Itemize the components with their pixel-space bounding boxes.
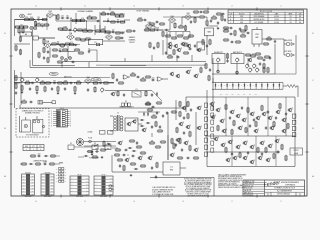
transistor Q37 [250,160,256,164]
resistor R92 [202,39,204,45]
svg-text:220K: 220K [83,28,87,30]
op-amp U1A [123,75,130,80]
lamp DS1 [30,26,33,29]
svg-text:D: D [224,84,225,86]
border tick top 1 [60,7,62,10]
resistor R47 [103,82,109,84]
svg-text:WIRE SIDE: WIRE SIDE [44,196,51,198]
svg-text:4K7: 4K7 [153,114,156,116]
svg-text:ENGR JW 4-94: ENGR JW 4-94 [244,185,254,187]
channel label [78,10,94,13]
transistor Q86 [248,58,252,62]
wire [191,16,199,18]
wire row3 full [14,81,114,83]
capacitor C41 [156,27,160,31]
bias box [125,118,138,131]
field vertical 6 [255,136,257,166]
resistor R99 [233,120,235,126]
tremolo text [119,106,134,108]
wire [110,116,113,131]
capacitor C7 [68,29,72,31]
resistor R155 [49,163,55,165]
border tick left 3 [9,151,12,153]
wire [20,163,60,165]
diode bridge [143,112,149,116]
capacitor C36 [123,93,125,97]
capacitor C56 [206,44,208,48]
pot P4 [36,77,40,82]
capacitor C99 [239,27,241,31]
wire bus G [20,107,160,109]
resistor R48 [21,85,23,91]
svg-text:.022: .022 [112,29,115,31]
resistor R87b [240,30,246,32]
resistor R15 [119,21,125,23]
svg-text:10U: 10U [59,48,62,50]
trem cluster [61,57,72,62]
transistor Q33 [250,145,256,149]
capacitor C89 [155,175,157,179]
riser x56 [55,15,57,21]
svg-text:1N4: 1N4 [243,94,246,96]
transistor Q66 [148,156,154,160]
resistor R112 [217,125,219,131]
transistor Q19 [236,114,242,118]
pin stub [109,185,114,191]
rail right [294,97,296,167]
resistor R32 [38,52,40,58]
svg-text:TREBLE: TREBLE [51,74,56,76]
parts under tube row [149,21,165,25]
capacitor C27 [29,87,31,91]
transistor Q35 [233,156,239,160]
parts above tank [223,27,233,29]
wire [162,40,164,55]
field vertical 5 [231,136,233,166]
capacitor C9 [121,32,125,34]
lamp DS2 [34,26,37,29]
resistor R138 [129,140,135,142]
resistor R80 [211,15,217,19]
capacitor C68 [247,151,249,155]
wire [205,17,208,20]
svg-text:1K5: 1K5 [57,41,60,43]
connector P5 pins [122,101,131,106]
wire psu [138,111,160,113]
parts mid band 2 [64,42,77,46]
control label VOLUME [91,78,100,81]
pot box 2 [231,51,244,64]
wire [146,171,163,173]
resistor R172 [177,35,183,37]
svg-text:47K: 47K [81,18,84,20]
parts center 45-55 [149,42,159,50]
transistor Q82 [181,42,185,46]
svg-text:JUMPER OPTION W1: JUMPER OPTION W1 [33,160,47,162]
emitter resistor column [204,103,207,156]
tube V4A [145,21,153,29]
ac pair wire 1 [84,141,116,143]
resistor R23 [77,29,83,31]
ground [57,92,60,95]
capacitor C6 [116,19,120,23]
zone number bottom 6 [35,201,37,203]
small box [96,43,100,46]
parts driver [179,111,189,120]
transistor Q32 [243,141,249,145]
legend table [23,145,44,152]
resistor R107 [257,147,259,153]
wire [103,40,125,42]
bias diode ladder [212,83,298,98]
wire [40,19,44,21]
wire bus B2 [96,64,206,66]
zone letter right C [312,80,314,82]
resistor R163 [115,149,121,151]
transistor Q39 [266,158,272,162]
regulator block IC1 [163,162,180,175]
vibrato channel text [128,36,136,44]
vibrato box small [33,36,38,40]
tube socket diagram XV1 [22,172,35,198]
svg-text:9249: 9249 [240,16,243,18]
transistor Q70 [118,141,124,145]
capacitor C40b [132,30,136,32]
parts power entry [89,149,109,160]
diagonal wire [152,91,162,101]
parts right of boxes [257,56,270,61]
recovery box [197,42,205,50]
connector diagram P7 [94,174,113,198]
resistor R43 [57,82,63,84]
relay K3 [92,143,98,149]
field vertical 7 [275,136,277,166]
vertical rail x213 [212,58,214,110]
wire [160,29,164,31]
capacitor C98 [230,41,234,43]
border tick top 2 [109,7,111,10]
resistor R31 [43,47,45,53]
diode CR5 [140,125,144,127]
resistor R53 [94,86,96,92]
transistor Q2 [194,74,200,78]
proprietary text block [218,173,246,189]
capacitor C31 [15,91,17,95]
svg-text:470: 470 [61,15,64,17]
svg-text:LTR: LTR [229,13,231,15]
svg-text:220K: 220K [25,17,29,19]
field vertical 4 [285,97,287,136]
wire rail x296 [295,35,297,60]
capacitor C10 [47,50,49,54]
svg-text:PWR: PWR [255,34,258,36]
wire [47,15,56,20]
resistor R137 [157,130,163,132]
resistor R7 [79,18,85,22]
svg-text:9311: 9311 [240,19,243,21]
svg-text:.047: .047 [88,15,91,17]
wire bus D [14,77,110,79]
svg-text:10U: 10U [66,15,69,17]
input jack oval J1 [19,14,32,18]
capacitor C66 [285,112,287,116]
connector P2/J2 ladder [51,108,71,127]
transistor Q40 [222,129,228,133]
resistor R57 [118,82,124,84]
transistor Q52 [182,106,188,110]
capacitor C92 [43,161,48,165]
svg-text:100K: 100K [30,17,34,19]
transistor Q54 [186,125,192,129]
zone number top 1 [280,5,282,7]
wire [74,146,92,148]
capacitor C29 [64,87,66,91]
parts mid right [74,49,84,54]
svg-text:QTY: QTY [32,146,35,148]
svg-text:OUTPUT: OUTPUT [293,150,299,152]
tube V5B [184,13,192,20]
transistor Q18 [230,110,236,114]
resistor R95 [183,42,189,46]
resistor R151 [30,155,36,157]
node [86,21,87,22]
capacitor C82 [95,150,99,152]
capacitor C100 [269,56,271,60]
svg-text:GY: GY [51,190,53,192]
resistor R143 [179,138,181,144]
transistor Q34 [226,158,232,162]
capacitor C101 [224,18,226,22]
label [33,160,47,162]
capacitor C26 [99,80,103,84]
resistor R59 [140,77,146,81]
svg-text:K1: K1 [136,89,138,91]
svg-text:9402: 9402 [240,22,243,24]
capacitor C84 [159,125,161,129]
parts right of V2B [115,37,124,39]
reverb tank box [205,28,214,36]
svg-text:D: D [253,84,254,86]
resistor R105 [225,147,227,153]
transistor Q22 [256,116,262,120]
capacitor C96 [156,111,158,115]
zone letter right D [312,33,314,35]
transistor Q30 [228,140,234,144]
svg-text:2K2: 2K2 [185,42,188,44]
svg-text:GY: GY [32,178,34,180]
fuse F1 [88,137,92,143]
resistor R135 [155,121,157,127]
svg-text:GY: GY [32,187,34,189]
capacitor C3 [66,15,70,19]
capacitor C52 [274,40,276,44]
resistor R10 [100,11,106,15]
drop [95,25,105,35]
resistor R134 [87,150,93,152]
resistor R115 [287,123,289,129]
output label box [290,148,303,155]
svg-text:.01: .01 [23,99,25,101]
resistor R144 [130,163,136,165]
resistor R142 [171,138,173,144]
border tick bottom 5 [256,194,258,197]
resistor R109 [273,153,275,159]
wire [124,19,130,21]
notes text left [152,186,176,196]
resistor R94 [173,49,175,55]
svg-text:GY: GY [32,190,34,192]
svg-text:REVERB POT: REVERB POT [214,52,223,54]
wire rail 2 [99,12,101,30]
resistor R93 [209,39,211,45]
border tick left 2 [9,103,12,105]
capacitor C5 [106,18,110,22]
svg-text:NOTES: UNLESS OTHERWISE SPECIF: NOTES: UNLESS OTHERWISE SPECIFIED [184,179,212,181]
capacitor C2 [61,15,65,19]
svg-text:VOLUME: VOLUME [93,79,99,81]
transistor Q85 [176,74,180,78]
svg-text:GY: GY [51,178,53,180]
resistor R85 [223,28,229,32]
resistor R152 [50,155,56,157]
capacitor C35 [209,68,211,72]
resistor R168 [263,43,269,45]
parts mid band 3 [52,48,68,52]
svg-text:CIRCUIT: CIRCUIT [129,42,135,44]
capacitor C1 [37,17,41,21]
resistor R28 [105,31,111,33]
transistor Q43 [270,126,276,130]
capacitor C71 [249,124,251,128]
resistor R96 [183,52,189,54]
svg-text:.047: .047 [252,53,255,55]
svg-text:IC1: IC1 [170,167,173,169]
resistor R70 [137,17,143,21]
resistor R72 [149,29,155,31]
capacitor C62 [241,106,243,110]
svg-text:.047: .047 [41,80,44,82]
svg-text:7-20-94: 7-20-94 [274,19,279,21]
resistor R22 [62,26,68,30]
drawing border frame [11,9,307,196]
pot P3 [21,77,25,82]
svg-text:B: B [230,19,231,21]
capacitor C32 [116,78,118,82]
resistor R131 [187,101,189,107]
border tick right 3 [305,151,308,153]
transistor Q46 [268,144,274,148]
svg-text:330K: 330K [64,80,68,82]
svg-text:C: C [230,22,231,24]
resistor R169 [221,15,223,21]
wire bus F [212,73,275,75]
resistor R75 [178,24,184,28]
resistor R20 [22,27,24,33]
resistor R46 [92,82,98,84]
capacitor C61 [229,116,231,120]
transistor Q80 [168,42,172,46]
resistor R52 [74,86,76,92]
pots lower right [249,67,260,72]
title block separator [150,178,214,197]
svg-text:.022: .022 [180,24,183,26]
riser x47 [46,20,48,31]
left rail long [14,70,16,108]
capacitor C83 [151,125,153,129]
resistor R27 [100,28,106,32]
resistor R26 [95,30,101,32]
diode CR4 [140,119,144,121]
svg-text:4K7: 4K7 [132,72,135,74]
capacitor C28 [51,87,53,91]
left rail [20,72,22,105]
capacitor C30 [87,88,89,92]
transistor Q64 [125,158,131,162]
node [34,19,35,20]
svg-text:R E V I S I O N S: R E V I S I O N S [260,11,272,13]
resistor R1 [23,17,29,21]
resistor R130 [179,101,181,107]
tube V2A [66,32,74,40]
wire [284,39,286,55]
wire [15,26,17,28]
resistor R90 [263,63,265,69]
capacitor C80 [190,108,192,112]
resistor R41 [39,80,45,84]
resistor R102 [261,105,263,111]
resistor R64 [117,90,119,96]
capacitor C72 [265,126,267,130]
resistor R174 [188,35,194,37]
svg-text:INPUT: INPUT [28,14,33,16]
svg-text:10U: 10U [242,33,245,35]
relay K4 [105,143,111,149]
wire bus H [112,171,146,173]
capacitor C70 [277,150,279,154]
ac pair wire 2 [84,145,116,147]
wire [218,64,237,76]
capacitor C25 [69,82,73,84]
resistor R111 [285,155,287,161]
tube V2B [105,33,113,40]
zone letter left B [4,128,6,130]
tube blob [60,44,65,47]
parts mid band 4 [52,55,75,63]
control label TREBLE [49,72,58,75]
pot P11 [253,63,257,68]
svg-text:WIRE SIDE: WIRE SIDE [25,196,32,198]
svg-text:330K: 330K [111,11,115,13]
capacitor C85 [136,141,138,145]
svg-text:330K: 330K [168,54,172,56]
svg-text:REF: REF [25,146,28,148]
transistor Q56 [184,141,190,145]
border tick bottom 1 [60,194,62,197]
transistor Q53 [179,122,185,126]
diode CR1 [156,92,158,96]
enclosure box [33,30,76,65]
resistor R147 [156,162,158,168]
bus top [207,96,295,98]
zone number top 5 [84,5,86,7]
resistor R49 [36,85,38,91]
ground [36,92,39,95]
svg-text:REV: REV [299,193,302,195]
zone number top 2 [231,5,233,7]
capacitor C34 [151,77,155,81]
resistor R55 [15,83,17,89]
svg-text:22U: 22U [152,77,155,79]
